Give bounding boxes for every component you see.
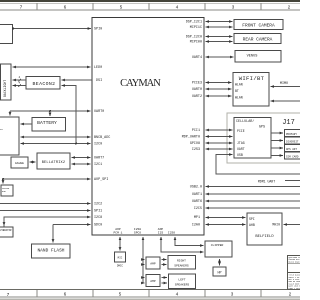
wire beacon to backlight b bbox=[13, 85, 27, 87]
svg-text:PCIE: PCIE bbox=[237, 129, 245, 133]
wire bellatrix UART7 bbox=[72, 157, 91, 159]
wire DSP_I2C1 front cam bbox=[206, 21, 233, 23]
svg-text:CLIPPER: CLIPPER bbox=[211, 244, 224, 247]
wire bellatrix I2C1 bbox=[72, 163, 91, 165]
right pin labels bbox=[182, 21, 202, 228]
wire cellular to primary ant bbox=[271, 132, 283, 134]
wire amp2 in b bbox=[143, 282, 145, 284]
bus width tick 4 upper bbox=[19, 79, 22, 88]
wire I2C2 bbox=[0, 203, 91, 205]
svg-text:J17: J17 bbox=[282, 119, 295, 127]
svg-text:3: 3 bbox=[232, 4, 235, 10]
svg-text:SPC0: SPC0 bbox=[134, 231, 141, 234]
wire drop to sensor bbox=[2, 179, 4, 184]
wire i2c riser to beacon bbox=[62, 86, 77, 144]
wire UART2 wlan bbox=[206, 95, 232, 97]
wire amp2 to left speakers b bbox=[162, 282, 168, 284]
beacon BEACON2 bbox=[26, 77, 60, 90]
svg-text:WIFI/BT: WIFI/BT bbox=[239, 75, 265, 82]
svg-text:MIMO: MIMO bbox=[280, 82, 288, 86]
svg-text:GPS: GPS bbox=[259, 126, 265, 130]
wire SPI1 bbox=[0, 210, 91, 212]
svg-text:I2S0: I2S0 bbox=[168, 231, 175, 234]
wire display to SPI0 bbox=[13, 28, 92, 30]
rear camera bbox=[234, 34, 281, 44]
svg-text:BELLATRIX2: BELLATRIX2 bbox=[42, 161, 66, 165]
wire amp2 to left speakers a bbox=[162, 277, 168, 279]
wire MIPI1 front cam bbox=[206, 26, 233, 28]
svg-text:GPS ANT: GPS ANT bbox=[286, 148, 297, 151]
amp A1 bbox=[146, 257, 160, 269]
gauge bbox=[11, 157, 28, 168]
svg-text:I2C0: I2C0 bbox=[94, 143, 102, 147]
svg-text:AOP: AOP bbox=[115, 228, 121, 231]
sim card bbox=[285, 152, 302, 159]
svg-text:AMP: AMP bbox=[150, 262, 156, 265]
svg-text:SIM CARD: SIM CARD bbox=[286, 155, 299, 158]
PMU BELLATRIX2 bbox=[37, 153, 70, 169]
wire drop to NAND bbox=[52, 225, 54, 243]
svg-text:5: 5 bbox=[119, 292, 122, 298]
svg-text:PRIMARY: PRIMARY bbox=[286, 133, 297, 136]
wire cellular to diversity ant bbox=[271, 140, 283, 142]
antenna PRIMARY bbox=[285, 130, 302, 137]
svg-text:I2S3: I2S3 bbox=[192, 148, 200, 152]
svg-text:LED0: LED0 bbox=[94, 66, 102, 70]
svg-text:CELLULAR/: CELLULAR/ bbox=[236, 119, 254, 124]
svg-text:DMIC: DMIC bbox=[117, 265, 124, 268]
sheet outer border bottom (cut) bbox=[0, 298, 300, 300]
wire I2C0 bbox=[21, 143, 91, 145]
svg-text:JTAG: JTAG bbox=[237, 141, 245, 145]
wire gauge to bellatrix bbox=[30, 161, 36, 163]
sheet border bottom strip bbox=[0, 289, 300, 291]
left speakers bbox=[169, 274, 196, 289]
svg-text:AMP: AMP bbox=[150, 280, 156, 283]
svg-text:USB: USB bbox=[237, 153, 243, 157]
wire modem uart stub bbox=[285, 180, 301, 182]
svg-text:BEACON2: BEACON2 bbox=[33, 81, 56, 87]
backlight driver bbox=[1, 64, 12, 100]
wire aop i2s to clipper bbox=[161, 237, 204, 252]
sheet border top zone strip bbox=[0, 3, 300, 10]
amp A2 bbox=[146, 275, 160, 287]
svg-text:RIGHT: RIGHT bbox=[177, 259, 186, 262]
svg-text:MHI0: MHI0 bbox=[272, 223, 280, 227]
wire battery to PMIC bbox=[21, 123, 33, 125]
svg-text:4: 4 bbox=[176, 4, 179, 10]
antenna GPS bbox=[285, 145, 302, 152]
mic box bbox=[115, 252, 126, 268]
svg-text:I2C2: I2C2 bbox=[94, 203, 102, 207]
svg-text:SPI: SPI bbox=[249, 217, 255, 221]
svg-text:BLOCK DIAG: BLOCK DIAG bbox=[289, 260, 300, 263]
companion BELFIELD bbox=[247, 213, 282, 245]
wire mic bbox=[119, 237, 121, 251]
svg-text:DSP_I2C0: DSP_I2C0 bbox=[186, 36, 202, 40]
svg-text:WLAN: WLAN bbox=[235, 83, 243, 87]
headphone jack HP bbox=[213, 267, 226, 276]
svg-text:7: 7 bbox=[20, 5, 23, 11]
wire UART cellular bbox=[206, 136, 233, 138]
svg-text:WLAN: WLAN bbox=[235, 96, 243, 100]
wire drop to battery bbox=[49, 111, 51, 116]
wire i2s1 to clipper bbox=[175, 237, 204, 246]
title block bbox=[288, 255, 303, 289]
PMIC (left, cropped) bbox=[0, 117, 19, 155]
svg-text:LEFT: LEFT bbox=[178, 278, 185, 281]
wire AOP_SPI bbox=[3, 178, 91, 180]
svg-text:MDP_UART0: MDP_UART0 bbox=[182, 136, 200, 140]
wire JTAG cellular bbox=[206, 142, 233, 144]
svg-text:6: 6 bbox=[64, 292, 67, 298]
left pin labels bbox=[94, 28, 110, 228]
svg-text:DSI: DSI bbox=[96, 79, 102, 83]
sheet border top thick rule bbox=[0, 0, 300, 2]
wire UART0 bus bbox=[10, 110, 91, 112]
svg-text:AOP: AOP bbox=[158, 228, 164, 231]
svg-text:I2A0: I2A0 bbox=[192, 224, 200, 228]
wire I2S0 amp bus bbox=[142, 237, 144, 283]
antenna DIVERSITY bbox=[285, 137, 302, 144]
wire amp1 to right speakers b bbox=[162, 264, 167, 266]
wire clipper to hp bbox=[219, 259, 221, 266]
svg-text:VENUS: VENUS bbox=[247, 54, 258, 58]
wire cellular to gps ant bbox=[271, 147, 283, 149]
svg-text:UART4: UART4 bbox=[192, 56, 202, 60]
svg-text:5: 5 bbox=[120, 4, 123, 10]
svg-text:6: 6 bbox=[64, 4, 67, 10]
svg-text:PAGE 1 CAYMN: PAGE 1 CAYMN bbox=[289, 287, 301, 290]
bottom pin labels bbox=[113, 228, 175, 235]
wire drop to PMIC bbox=[9, 111, 11, 116]
venus sensor bbox=[235, 51, 281, 63]
svg-text:SPI1: SPI1 bbox=[94, 210, 102, 214]
wire amp2 in a bbox=[143, 277, 145, 279]
svg-text:I2C5: I2C5 bbox=[194, 207, 202, 211]
svg-text:MIPI00: MIPI00 bbox=[190, 41, 202, 45]
svg-text:AHB: AHB bbox=[249, 223, 255, 227]
svg-text:SPI0: SPI0 bbox=[94, 28, 102, 32]
svg-text:I2S0: I2S0 bbox=[134, 228, 141, 231]
svg-text:UART1: UART1 bbox=[192, 193, 202, 197]
svg-text:SDC0: SDC0 bbox=[94, 224, 102, 228]
svg-text:UART0: UART0 bbox=[94, 110, 104, 114]
svg-text:UART7: UART7 bbox=[94, 157, 104, 161]
right speakers bbox=[168, 256, 196, 270]
wire cellular to sim bbox=[271, 155, 283, 157]
svg-text:GAUGE: GAUGE bbox=[15, 162, 24, 165]
svg-text:VIBRATOR: VIBRATOR bbox=[0, 229, 12, 232]
vibrator box (left, cropped) bbox=[0, 227, 13, 237]
wire belfield AHB bbox=[206, 224, 246, 226]
svg-text:BNCB_ADC: BNCB_ADC bbox=[94, 136, 110, 140]
svg-text:7: 7 bbox=[7, 292, 10, 298]
wire beacon to backlight a bbox=[13, 79, 27, 81]
wire LED0 to backlight bbox=[13, 66, 91, 68]
svg-text:BACKLIGHT: BACKLIGHT bbox=[3, 80, 7, 97]
wire belfield SPI bbox=[206, 217, 246, 219]
wire PCIE3 wlan bbox=[206, 82, 232, 84]
svg-text:FRONT CAMERA: FRONT CAMERA bbox=[242, 23, 275, 29]
top zone numbers bbox=[20, 4, 291, 10]
svg-text:BELFIELD: BELFIELD bbox=[255, 235, 274, 239]
wire UART1 bbox=[206, 193, 302, 195]
display connector (left, cropped) bbox=[0, 25, 13, 44]
front camera bbox=[234, 20, 283, 30]
NAND flash bbox=[32, 244, 71, 258]
svg-text:SPEAKERS: SPEAKERS bbox=[174, 264, 189, 267]
wire belfield MHI bbox=[284, 224, 302, 226]
bottom zone numbers bbox=[7, 292, 292, 298]
wire I2S3 cellular bbox=[206, 148, 233, 150]
svg-text:UART: UART bbox=[237, 147, 245, 151]
wire DSP_I2C0 rear cam bbox=[206, 36, 233, 38]
svg-text:AOP_SPI: AOP_SPI bbox=[94, 178, 108, 182]
wire vibrator arrow bbox=[3, 221, 5, 226]
svg-text:I2S: I2S bbox=[158, 231, 164, 234]
svg-text:GPIO8: GPIO8 bbox=[190, 142, 200, 146]
battery bbox=[32, 118, 66, 132]
svg-text:SPEAKERS: SPEAKERS bbox=[175, 284, 190, 287]
wire USB2.0 bbox=[206, 186, 302, 188]
svg-text:DSP_I2C1: DSP_I2C1 bbox=[186, 21, 202, 25]
audio codec CLIPPER bbox=[205, 241, 232, 257]
svg-text:MIC: MIC bbox=[118, 256, 123, 259]
SoC U1 CAYMAN bbox=[92, 18, 204, 236]
svg-text:MIPI1C: MIPI1C bbox=[190, 26, 202, 30]
wire UART0 bt bbox=[206, 88, 232, 90]
wire amp1 to right speakers a bbox=[162, 259, 167, 261]
wire I2C5 bbox=[206, 207, 302, 209]
wire MIMO ant a bbox=[271, 86, 302, 88]
svg-text:MP1: MP1 bbox=[194, 216, 200, 220]
wire MIPI0 rear cam bbox=[206, 41, 233, 43]
svg-text:3: 3 bbox=[231, 292, 234, 298]
svg-text:UART0: UART0 bbox=[192, 88, 202, 92]
wifi/bt module bbox=[233, 73, 269, 107]
svg-text:HP: HP bbox=[217, 271, 221, 275]
cellular/gps module bbox=[234, 118, 271, 159]
wire vibrator I2C8 bbox=[4, 217, 91, 227]
svg-text:PCM 1: PCM 1 bbox=[113, 231, 122, 234]
svg-text:PCI1: PCI1 bbox=[192, 129, 200, 133]
wire BNCB_ADC bbox=[21, 136, 91, 138]
sensor box (left, cropped) bbox=[1, 185, 13, 196]
wire cellular USB bbox=[216, 155, 301, 175]
wire DSI to beacon bbox=[62, 79, 93, 81]
svg-text:USB2.0: USB2.0 bbox=[190, 186, 202, 190]
cellular shield enclosure J17 bbox=[227, 113, 303, 163]
svg-text:4: 4 bbox=[176, 292, 179, 298]
svg-text:2: 2 bbox=[289, 292, 292, 298]
wire amp1 in a bbox=[143, 259, 145, 261]
svg-text:NAND FLASH: NAND FLASH bbox=[37, 248, 64, 254]
wire SDC0 bbox=[53, 224, 91, 226]
svg-text:I2C8: I2C8 bbox=[94, 216, 102, 220]
svg-text:UART2: UART2 bbox=[192, 95, 202, 99]
svg-text:MDM1 UART: MDM1 UART bbox=[258, 179, 275, 183]
wire amp1 in b bbox=[143, 264, 145, 266]
svg-text:BT: BT bbox=[235, 89, 239, 93]
svg-text:REAR CAMERA: REAR CAMERA bbox=[243, 37, 273, 43]
svg-text:I2C1: I2C1 bbox=[94, 163, 102, 167]
wire PCIE cellular bbox=[206, 129, 233, 131]
wire UART6 bbox=[206, 200, 302, 202]
svg-text:UART6: UART6 bbox=[192, 200, 202, 204]
svg-text:BATTERY: BATTERY bbox=[37, 120, 57, 126]
svg-text:CAYMAN: CAYMAN bbox=[120, 78, 161, 89]
svg-text:2: 2 bbox=[288, 4, 291, 10]
svg-text:DIVERSIT: DIVERSIT bbox=[286, 140, 299, 143]
svg-text:PCIE3: PCIE3 bbox=[192, 82, 202, 86]
wire UART4 venus bbox=[206, 56, 234, 58]
wire MIMO ant b bbox=[271, 100, 302, 102]
